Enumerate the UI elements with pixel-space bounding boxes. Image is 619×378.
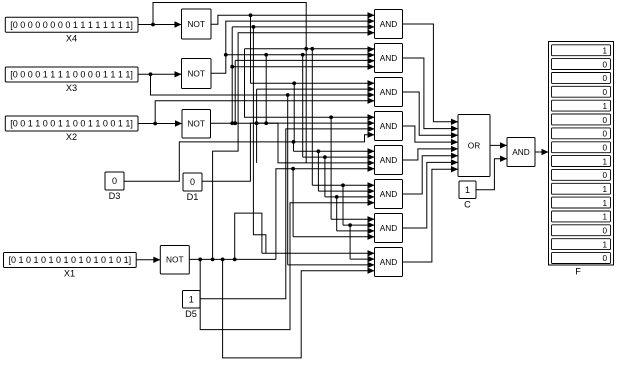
wire D5 to AND4.3 <box>200 126 375 299</box>
constant D3 <box>105 172 124 201</box>
NOT gate U4 (X1) <box>160 246 189 275</box>
svg-text:[0 0 1 1 0 0 1 1 0 0 1 1 0 0 1: [0 0 1 1 0 0 1 1 0 0 1 1 0 0 1 1] <box>10 119 133 129</box>
wire AND A2 output to OR input 2 <box>403 58 459 132</box>
constant X2 <box>5 116 138 142</box>
wire NOT U3: AND1.3, AND2.3, AND2.4, AND3.2, AND5.3; cascade jog from AND1.3 row <box>211 24 375 254</box>
svg-text:AND: AND <box>380 87 398 97</box>
AND gate A7 <box>375 214 403 243</box>
wire AND A7 output to OR input 7 <box>403 159 459 228</box>
svg-text:X1: X1 <box>64 269 75 279</box>
svg-text:AND: AND <box>380 53 398 63</box>
svg-text:AND: AND <box>380 19 398 29</box>
NOT gate U3 (X2) <box>182 110 211 139</box>
AND gate A5 <box>375 146 403 175</box>
constant X1 <box>4 253 137 279</box>
wire X3: to NOT U2, branch AND3.3 and cascade to AND8.3 <box>138 71 375 268</box>
wire AND A1 output to OR input 1 <box>403 24 459 125</box>
NOT gate U1 (X4) <box>182 9 212 39</box>
svg-text:1: 1 <box>602 102 607 111</box>
svg-text:AND: AND <box>380 121 398 131</box>
wire AND A3 output to OR input 3 <box>403 92 459 139</box>
svg-text:0: 0 <box>602 254 607 263</box>
svg-text:X2: X2 <box>66 132 77 142</box>
svg-text:0: 0 <box>602 74 607 83</box>
svg-text:X3: X3 <box>66 83 77 93</box>
wire X4: to NOT U1, top route down at 306 to AND2.1 row, branches AND4.1, AND6.1, AND6.4 <box>138 3 375 223</box>
svg-text:[0 0 0 0 0 0 0 0 1 1 1 1 1 1 1: [0 0 0 0 0 0 0 0 1 1 1 1 1 1 1 1] <box>10 20 133 30</box>
AND gate A6 <box>375 180 403 209</box>
svg-text:0: 0 <box>602 143 607 152</box>
AND gate A2 <box>375 44 403 73</box>
svg-text:OR: OR <box>468 140 480 150</box>
constant D5 <box>183 291 201 320</box>
NOT gate U2 (X3) <box>182 59 212 89</box>
constant D1 <box>183 173 202 202</box>
svg-text:0: 0 <box>602 60 607 69</box>
svg-text:1: 1 <box>602 240 607 249</box>
AND gate A8 <box>375 248 403 277</box>
wire NOT U2: AND1.2, AND2.2, AND5.2, cascade AND6.3 <box>211 18 375 200</box>
constant X3 <box>5 67 138 93</box>
svg-text:D3: D3 <box>109 191 121 201</box>
wire AND A5 output to OR input 5 <box>403 146 459 160</box>
svg-text:1: 1 <box>602 157 607 166</box>
svg-text:X4: X4 <box>66 34 77 44</box>
AND gate A3 <box>375 78 403 107</box>
wire cascade AND6.1 row to AND7.2 <box>341 183 374 262</box>
wire OR output to AND A9 input 1 <box>490 142 507 148</box>
wire X2: to NOT U3, branch up to AND3.4 <box>138 98 375 127</box>
svg-text:AND: AND <box>512 147 530 157</box>
AND gate A4 <box>375 112 403 141</box>
svg-text:AND: AND <box>380 257 398 267</box>
svg-text:AND: AND <box>380 189 398 199</box>
svg-text:0: 0 <box>190 177 195 187</box>
svg-text:[0 0 0 0 1 1 1 1 0 0 0 0 1 1 1: [0 0 0 0 1 1 1 1 0 0 0 0 1 1 1 1] <box>10 70 133 80</box>
wire X1 to NOT U4 <box>136 257 160 263</box>
svg-text:D5: D5 <box>185 309 197 319</box>
svg-text:D1: D1 <box>187 192 199 202</box>
wire D1 to AND4.2 <box>202 120 375 181</box>
wire AND A8 output to OR input 8 <box>403 166 459 262</box>
svg-text:1: 1 <box>602 199 607 208</box>
svg-text:NOT: NOT <box>166 255 184 265</box>
svg-text:AND: AND <box>380 223 398 233</box>
wire C to AND A9 input 2 <box>476 156 507 190</box>
svg-text:1: 1 <box>602 213 607 222</box>
svg-text:1: 1 <box>465 185 470 195</box>
svg-text:1: 1 <box>602 47 607 56</box>
svg-text:0: 0 <box>602 130 607 139</box>
wire AND A6 output to OR input 6 <box>403 153 459 195</box>
AND gate A1 <box>375 10 403 39</box>
svg-text:[0 1 0 1 0 1 0 1 0 1 0 1 0 1 0: [0 1 0 1 0 1 0 1 0 1 0 1 0 1 0 1] <box>8 255 131 265</box>
svg-text:0: 0 <box>602 227 607 236</box>
wire AND A4 output to OR input 4 <box>403 126 459 145</box>
constant X4 <box>5 17 138 43</box>
svg-text:NOT: NOT <box>187 68 205 78</box>
svg-text:1: 1 <box>602 185 607 194</box>
svg-text:0: 0 <box>602 171 607 180</box>
svg-text:1: 1 <box>189 294 194 304</box>
wire cascade AND6.3 row to AND7.3 <box>335 195 375 234</box>
svg-text:AND: AND <box>380 155 398 165</box>
svg-text:0: 0 <box>602 116 607 125</box>
wire AND A9 output to display F <box>535 149 549 155</box>
svg-text:0: 0 <box>112 176 117 186</box>
svg-text:NOT: NOT <box>187 19 205 29</box>
wire NOT U1: AND1.1 and branch down to AND3.1, cascade at 294 <box>211 12 375 142</box>
svg-text:0: 0 <box>602 88 607 97</box>
constant C <box>459 181 476 210</box>
AND gate A9 (output) <box>507 138 535 167</box>
wire D3: up, long line y=142 to AND4.4 hook; branches AND5.1 and cascade AND6.2 <box>124 132 375 195</box>
svg-text:NOT: NOT <box>187 119 205 129</box>
svg-text:C: C <box>464 200 471 210</box>
svg-text:F: F <box>575 267 581 277</box>
wire NOT U4: jog to AND1.4, U-routes to AND7.4 and AND8.4, jog to AND8.1, AND5.4 <box>189 30 374 358</box>
OR gate <box>458 115 490 177</box>
display F <box>549 42 614 277</box>
